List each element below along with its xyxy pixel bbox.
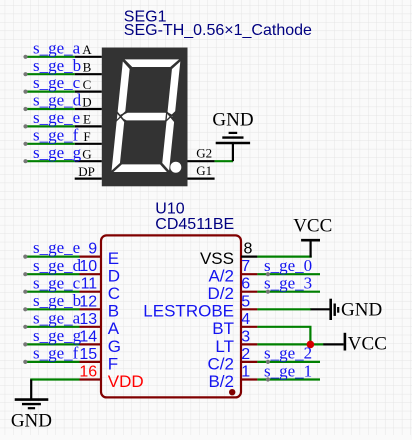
display pin B: [75, 73, 102, 75]
power VCC (top) symbol: [301, 240, 320, 257]
svg-text:C/2: C/2: [208, 354, 234, 373]
IC pin 11 (C) stub: [80, 291, 102, 293]
svg-text:s_ge_0: s_ge_0: [264, 256, 312, 275]
display pin D: [75, 108, 102, 110]
svg-text:B: B: [83, 60, 92, 75]
wire end dot s_ge_f (U10): [23, 360, 27, 364]
svg-text:14: 14: [79, 328, 97, 345]
wire LESTROBE pin5 to GND: [257, 308, 311, 310]
svg-text:G2: G2: [196, 146, 212, 161]
IC pin 12 (B) stub: [80, 308, 102, 310]
wire net s_ge_1: [257, 378, 320, 380]
wire joint dot s_ge_1: [266, 377, 270, 381]
wire end dot s_ge_g (U10): [23, 342, 27, 346]
svg-text:SEG-TH_0.56×1_Cathode: SEG-TH_0.56×1_Cathode: [124, 22, 312, 39]
svg-text:s_ge_c: s_ge_c: [33, 73, 81, 92]
IC pin 1 (B/2) stub: [241, 378, 257, 380]
wire net s_ge_d to U10: [25, 273, 80, 275]
display pin A: [75, 56, 102, 58]
wire net s_ge_e to display: [25, 125, 75, 127]
svg-text:s_ge_f: s_ge_f: [33, 344, 79, 363]
IC pin 9 (E) stub: [80, 256, 102, 258]
wire end dot s_ge_d: [23, 107, 27, 111]
svg-text:1: 1: [241, 364, 250, 381]
svg-text:C: C: [108, 284, 120, 303]
display pin G: [75, 160, 102, 162]
svg-text:B: B: [108, 302, 119, 321]
IC pin 3 (LT) stub: [241, 343, 257, 345]
svg-text:B/2: B/2: [208, 372, 234, 391]
svg-text:s_ge_3: s_ge_3: [264, 274, 312, 293]
display pin C: [75, 90, 102, 92]
svg-text:A: A: [108, 319, 120, 338]
wire BT pin4 down to LT net: [257, 327, 310, 345]
ground GND (strobe, sideways) symbol: [311, 299, 339, 320]
IC pin 15 (F) stub: [80, 361, 102, 363]
wire net s_ge_c to U10: [25, 291, 80, 293]
svg-text:s_ge_d: s_ge_d: [33, 91, 82, 110]
svg-text:s_ge_e: s_ge_e: [33, 108, 80, 127]
svg-text:s_ge_b: s_ge_b: [33, 291, 81, 310]
display pin F: [75, 143, 102, 145]
svg-text:LESTROBE: LESTROBE: [143, 302, 234, 321]
IC U10 pin-1 marker dot: [229, 389, 235, 395]
display pin G2: [188, 160, 215, 162]
wire VSS pin8 to VCC: [257, 256, 311, 258]
IC pin 5 (LESTROBE) stub: [241, 308, 257, 310]
svg-text:s_ge_g: s_ge_g: [33, 143, 82, 162]
wire end dot s_ge_g: [23, 159, 27, 163]
svg-text:VSS: VSS: [200, 249, 234, 268]
display pin E: [75, 125, 102, 127]
svg-text:E: E: [83, 112, 91, 127]
wire net s_ge_g to U10: [25, 343, 80, 345]
wire joint dot s_ge_0: [266, 272, 270, 276]
wire net s_ge_0: [257, 273, 320, 275]
wire joint dot s_ge_2: [266, 360, 270, 364]
wire net s_ge_d to display: [25, 108, 75, 110]
IC pin 6 (D/2) stub: [241, 291, 257, 293]
svg-text:D/2: D/2: [208, 284, 234, 303]
svg-text:s_ge_1: s_ge_1: [264, 361, 312, 380]
svg-text:BT: BT: [212, 319, 234, 338]
svg-text:E: E: [108, 249, 119, 268]
svg-text:s_ge_c: s_ge_c: [33, 273, 81, 292]
svg-text:G: G: [108, 337, 121, 356]
wire end dot s_ge_e (U10): [23, 255, 27, 259]
IC pin 2 (C/2) stub: [241, 361, 257, 363]
svg-text:11: 11: [81, 276, 98, 293]
wire net s_ge_b to U10: [25, 308, 80, 310]
wire end dot s_ge_a (U10): [23, 325, 27, 329]
svg-text:F: F: [108, 354, 118, 373]
svg-text:VCC: VCC: [293, 215, 332, 236]
wire end dot s_ge_c (U10): [23, 290, 27, 294]
svg-text:16: 16: [79, 364, 97, 381]
display pin DP: [75, 178, 102, 180]
svg-text:s_ge_b: s_ge_b: [33, 56, 81, 75]
svg-text:GND: GND: [11, 410, 52, 431]
svg-text:LT: LT: [215, 337, 234, 356]
svg-text:s_ge_a: s_ge_a: [33, 38, 81, 57]
svg-text:12: 12: [79, 293, 97, 310]
svg-text:CD4511BE: CD4511BE: [155, 216, 234, 233]
svg-text:10: 10: [79, 258, 97, 275]
svg-text:2: 2: [241, 346, 250, 363]
IC pin 7 (A/2) stub: [241, 273, 257, 275]
svg-text:4: 4: [241, 311, 250, 328]
wire net s_ge_f to display: [25, 143, 75, 145]
wire end dot s_ge_d (U10): [23, 272, 27, 276]
wire net s_ge_g to display: [25, 160, 75, 162]
svg-text:5: 5: [241, 293, 250, 310]
wire net s_ge_a to display: [25, 56, 75, 58]
junction dot BT/LT/VCC: [307, 341, 315, 349]
wire net s_ge_b to display: [25, 73, 75, 75]
svg-text:A/2: A/2: [208, 267, 234, 286]
svg-text:D: D: [82, 94, 91, 109]
IC pin 4 (BT) stub: [241, 326, 257, 328]
svg-text:s_ge_a: s_ge_a: [33, 308, 81, 327]
wire net s_ge_f to U10: [25, 361, 80, 363]
wire net s_ge_c to display: [25, 90, 75, 92]
ground GND (VDD... bottom left) symbol: [15, 380, 49, 409]
wire net s_ge_2: [257, 361, 320, 363]
svg-text:s_ge_g: s_ge_g: [33, 326, 82, 345]
wire end dot s_ge_a: [23, 55, 27, 59]
display pin G1: [188, 178, 215, 180]
svg-text:VCC: VCC: [348, 334, 387, 355]
svg-text:8: 8: [244, 241, 253, 258]
power VCC (right, sideways) symbol: [323, 333, 345, 351]
svg-text:A: A: [82, 42, 92, 57]
wire LT pin3 to VCC: [257, 343, 323, 345]
IC pin 16 (VDD) stub: [80, 378, 102, 380]
display decimal point: [170, 162, 181, 173]
svg-text:s_ge_d: s_ge_d: [33, 256, 82, 275]
svg-text:F: F: [83, 129, 90, 144]
svg-text:s_ge_2: s_ge_2: [264, 344, 312, 363]
svg-text:15: 15: [79, 346, 97, 363]
wire end dot s_ge_b (U10): [23, 307, 27, 311]
7-segment display SEG1 body: [102, 48, 188, 187]
wire net s_ge_3: [257, 291, 320, 293]
svg-text:GND: GND: [341, 300, 382, 321]
wire joint dot s_ge_3: [266, 290, 270, 294]
svg-text:9: 9: [88, 241, 97, 258]
svg-text:s_ge_f: s_ge_f: [33, 125, 79, 144]
svg-text:7: 7: [241, 258, 250, 275]
svg-text:GND: GND: [212, 110, 253, 131]
svg-text:G1: G1: [196, 163, 212, 178]
svg-text:s_ge_e: s_ge_e: [33, 238, 80, 257]
svg-text:G: G: [82, 147, 91, 162]
svg-text:6: 6: [241, 276, 250, 293]
wire end dot s_ge_e: [23, 124, 27, 128]
IC pin 13 (A) stub: [80, 326, 102, 328]
wire G2 to GND: [215, 160, 233, 162]
IC pin 14 (G) stub: [80, 343, 102, 345]
svg-text:VDD: VDD: [108, 372, 144, 391]
svg-text:3: 3: [241, 328, 250, 345]
display segments (digit 8): [111, 59, 182, 173]
svg-text:C: C: [83, 77, 92, 92]
svg-text:DP: DP: [78, 164, 95, 179]
svg-text:D: D: [108, 267, 120, 286]
ground GND (display common cathode): [216, 133, 250, 161]
wire end dot s_ge_c: [23, 90, 27, 94]
IC pin 8 (VSS) stub: [241, 256, 257, 258]
wire net s_ge_a to U10: [25, 326, 80, 328]
svg-text:13: 13: [79, 311, 97, 328]
wire end dot s_ge_f: [23, 142, 27, 146]
wire net s_ge_e to U10: [25, 256, 80, 258]
wire end dot s_ge_b: [23, 72, 27, 76]
IC pin 10 (D) stub: [80, 273, 102, 275]
IC U10 body: [101, 235, 241, 397]
wire VDD pin16 to ground: [30, 378, 79, 380]
